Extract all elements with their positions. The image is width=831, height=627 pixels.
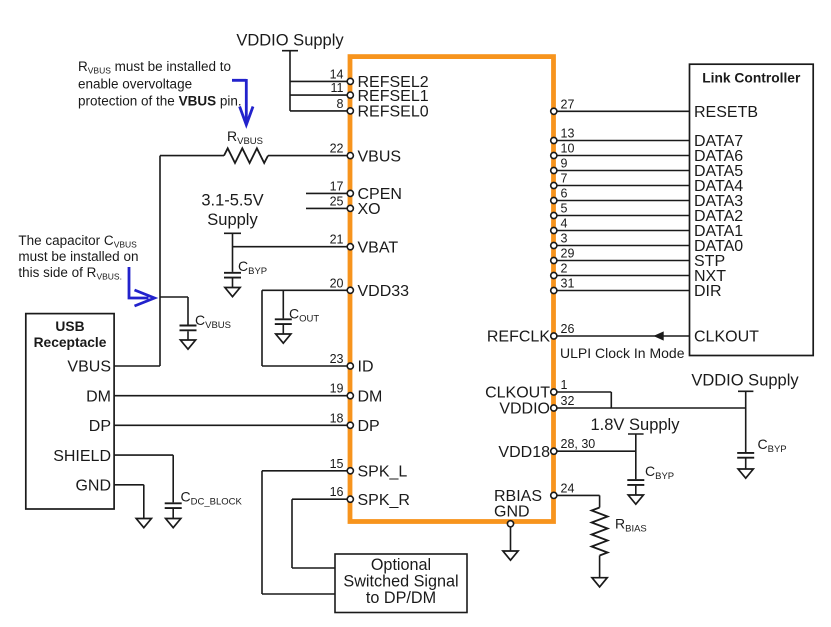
svg-text:6: 6 xyxy=(561,187,568,201)
svg-text:29: 29 xyxy=(561,247,575,261)
svg-text:VDD33: VDD33 xyxy=(358,283,410,300)
svg-text:Optional: Optional xyxy=(371,556,431,574)
svg-text:2: 2 xyxy=(561,262,568,276)
svg-text:RESETB: RESETB xyxy=(694,104,758,121)
svg-text:27: 27 xyxy=(561,97,575,111)
svg-text:21: 21 xyxy=(330,233,344,247)
svg-text:9: 9 xyxy=(561,157,568,171)
svg-text:VDD18: VDD18 xyxy=(498,444,550,461)
svg-text:REFSEL1: REFSEL1 xyxy=(358,88,429,105)
svg-text:28, 30: 28, 30 xyxy=(561,437,596,451)
svg-text:VBUS: VBUS xyxy=(67,359,111,376)
svg-text:CLKOUT: CLKOUT xyxy=(694,329,759,346)
svg-text:REFSEL0: REFSEL0 xyxy=(358,104,429,121)
svg-text:SPK_L: SPK_L xyxy=(358,464,408,481)
svg-text:must be installed on: must be installed on xyxy=(18,249,138,264)
svg-text:DP: DP xyxy=(89,418,111,435)
svg-text:RBIAS: RBIAS xyxy=(494,488,542,505)
svg-text:26: 26 xyxy=(561,322,575,336)
svg-text:5: 5 xyxy=(561,202,568,216)
svg-text:4: 4 xyxy=(561,217,568,231)
svg-text:DM: DM xyxy=(86,388,111,405)
svg-text:17: 17 xyxy=(330,179,344,193)
svg-text:enable overvoltage: enable overvoltage xyxy=(78,76,192,91)
svg-text:13: 13 xyxy=(561,127,575,141)
svg-text:31: 31 xyxy=(561,277,575,291)
svg-text:3: 3 xyxy=(561,232,568,246)
svg-text:1: 1 xyxy=(561,378,568,392)
svg-text:ID: ID xyxy=(358,359,374,376)
svg-text:VDDIO Supply: VDDIO Supply xyxy=(236,32,344,50)
svg-text:18: 18 xyxy=(330,411,344,425)
svg-text:DP: DP xyxy=(358,418,380,435)
svg-text:23: 23 xyxy=(330,352,344,366)
svg-text:7: 7 xyxy=(561,172,568,186)
svg-text:CLKOUT: CLKOUT xyxy=(485,385,550,402)
svg-text:11: 11 xyxy=(331,81,344,95)
svg-text:VBAT: VBAT xyxy=(358,239,399,256)
svg-text:XO: XO xyxy=(358,201,381,218)
svg-text:15: 15 xyxy=(330,457,344,471)
svg-text:25: 25 xyxy=(330,194,344,208)
svg-text:32: 32 xyxy=(561,394,575,408)
svg-text:DM: DM xyxy=(358,388,383,405)
svg-text:8: 8 xyxy=(337,97,344,111)
svg-text:16: 16 xyxy=(330,485,344,499)
svg-text:22: 22 xyxy=(330,142,344,156)
svg-text:to DP/DM: to DP/DM xyxy=(366,589,436,607)
svg-text:Link Controller: Link Controller xyxy=(702,71,801,86)
svg-text:3.1-5.5V: 3.1-5.5V xyxy=(201,192,263,210)
svg-text:19: 19 xyxy=(330,382,344,396)
svg-text:DIR: DIR xyxy=(694,283,722,300)
svg-text:10: 10 xyxy=(561,142,575,156)
svg-text:SPK_R: SPK_R xyxy=(358,492,410,509)
svg-text:14: 14 xyxy=(330,67,344,81)
svg-text:ULPI Clock In Mode: ULPI Clock In Mode xyxy=(560,345,685,361)
svg-text:20: 20 xyxy=(330,276,344,290)
svg-text:protection of the VBUS pin.: protection of the VBUS pin. xyxy=(78,94,242,109)
svg-text:SHIELD: SHIELD xyxy=(53,448,111,465)
svg-text:REFCLK: REFCLK xyxy=(487,329,550,346)
svg-text:VDDIO Supply: VDDIO Supply xyxy=(691,372,799,390)
svg-text:GND: GND xyxy=(494,504,530,521)
svg-text:GND: GND xyxy=(75,478,111,495)
svg-text:VDDIO: VDDIO xyxy=(499,401,550,418)
svg-text:1.8V Supply: 1.8V Supply xyxy=(591,416,681,434)
svg-text:24: 24 xyxy=(561,481,575,495)
svg-text:USB: USB xyxy=(55,319,84,334)
svg-text:VBUS: VBUS xyxy=(358,148,402,165)
svg-text:Supply: Supply xyxy=(207,211,258,229)
svg-text:Switched Signal: Switched Signal xyxy=(343,573,458,591)
svg-text:Receptacle: Receptacle xyxy=(34,335,107,350)
